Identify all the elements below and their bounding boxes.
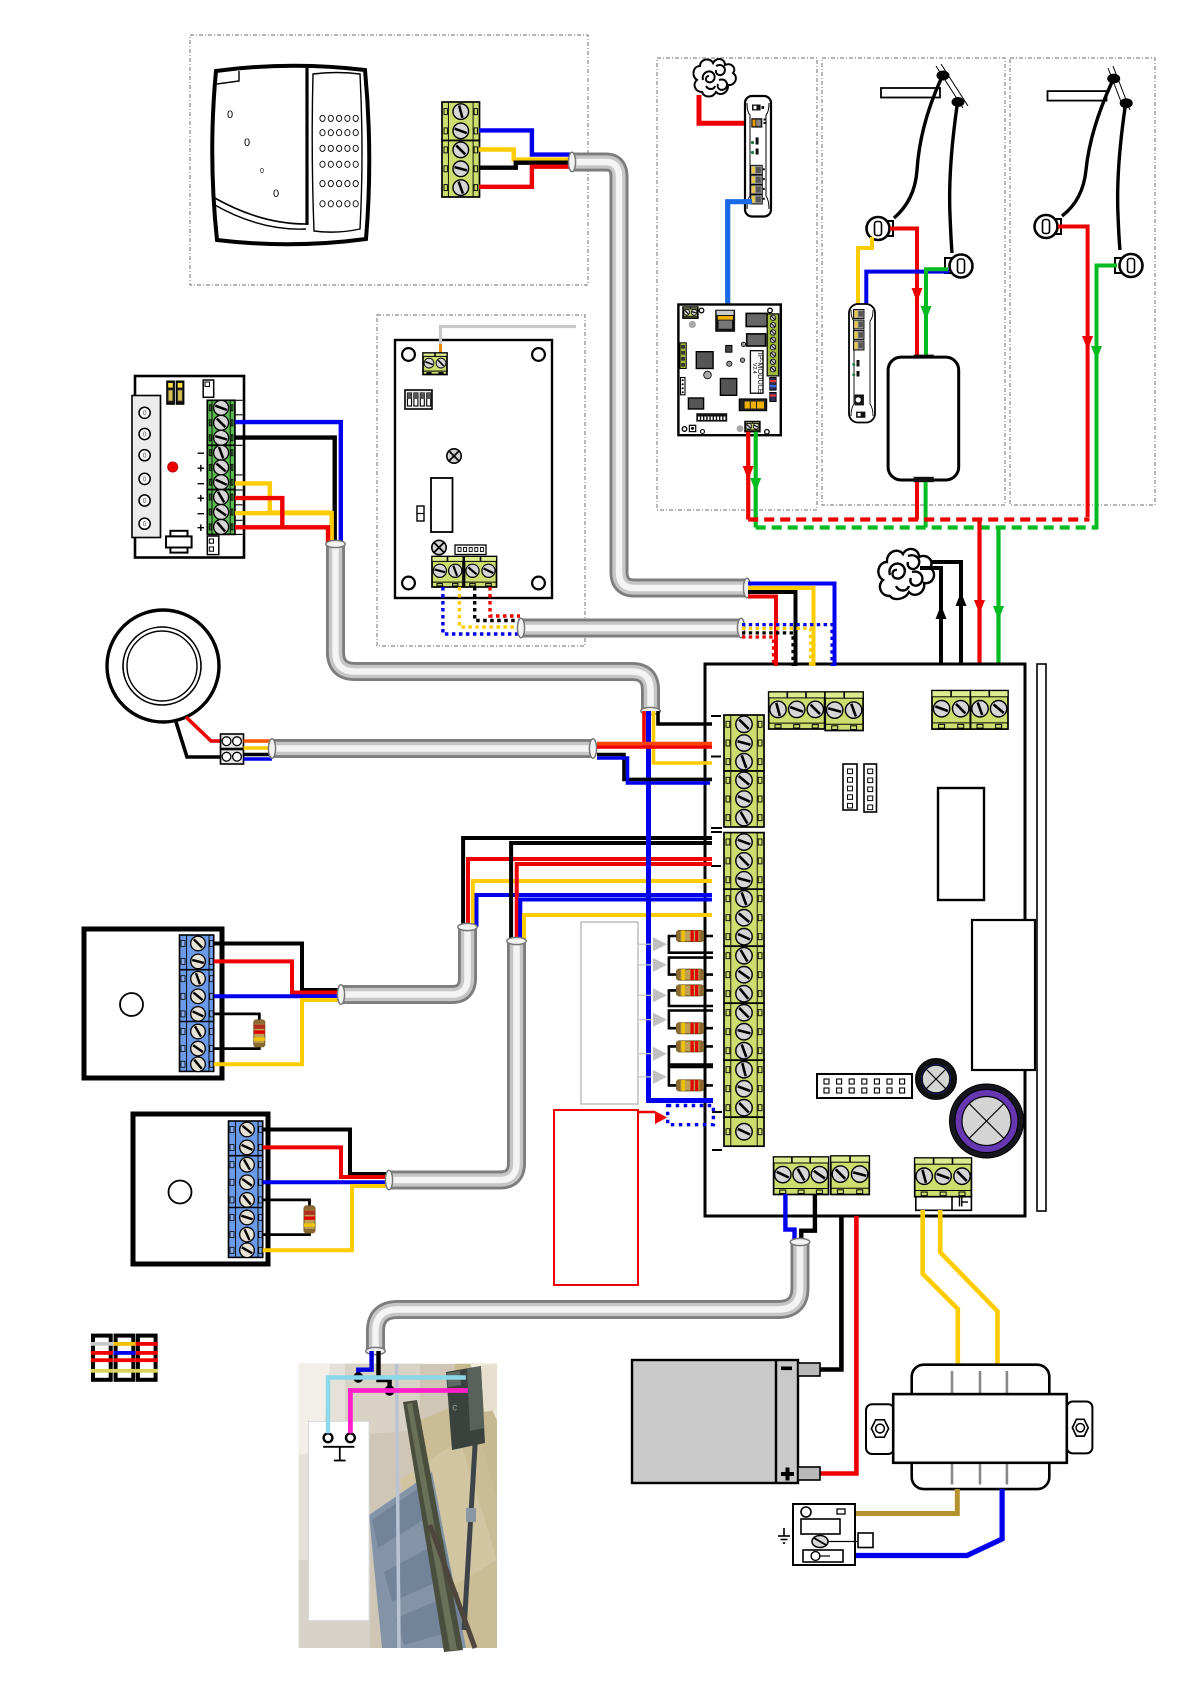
- dotted wire black wiegand-cable to TB1: [742, 633, 793, 666]
- wire tan transformer to relay: [853, 1489, 957, 1514]
- bus dashed green: [756, 525, 1097, 529]
- transformer left hex nut: [871, 1420, 888, 1437]
- wire blue siren to panel: [597, 758, 710, 783]
- door operator 1 cable black 1: [894, 79, 941, 218]
- PSU fuse holder 2: [176, 381, 184, 404]
- wire red operator1: [890, 229, 917, 356]
- zone resistor R1: [677, 931, 704, 942]
- door cable 1 riser wires: [463, 838, 712, 927]
- svg-text:−: −: [197, 476, 205, 491]
- wire red PSU 2: [235, 527, 328, 545]
- enclosure dashed box: IP module zone: [657, 58, 817, 510]
- 5-pin header wiegand: [455, 545, 486, 555]
- remote antenna device operator1: [849, 304, 875, 423]
- cable panel to garage opener (silver): [376, 1242, 801, 1351]
- panel left terminal column B zones: [724, 833, 764, 890]
- DIP switch 4-position: [405, 390, 432, 409]
- card reader terminal block (2+3): [442, 102, 480, 141]
- transformer core: [912, 1365, 1050, 1489]
- door operator 2 knob 1: [1052, 219, 1061, 234]
- door contact 2 terminal strip blue: [229, 1121, 263, 1257]
- zone pointer arrows gray: [638, 943, 652, 945]
- wire red PSU 1: [235, 498, 282, 527]
- panel terminal TB3 outputs: [774, 1157, 829, 1195]
- zone resistor R6: [677, 1080, 704, 1091]
- panel capacitor: [950, 1084, 1024, 1158]
- IP module left connector: [680, 343, 686, 369]
- legend resistor color code 2: [116, 1336, 134, 1380]
- zone resistor R5: [677, 1041, 704, 1052]
- wire green operator2 to bus: [1097, 266, 1118, 530]
- cable wiegand to panel (silver): [521, 619, 741, 638]
- door operator 1 cable black 2: [950, 106, 957, 253]
- wire blue reader: [479, 130, 570, 154]
- wire yellow elbow to panel: [654, 711, 713, 763]
- wire red siren: [186, 717, 226, 741]
- IP module edge connector: [696, 413, 727, 421]
- main control panel board: [705, 664, 1025, 1216]
- zone resistor R2 loop wiring: [690, 973, 713, 976]
- wire red battery: [820, 1216, 856, 1474]
- wire black phone 1: [920, 568, 941, 690]
- wire blue door2 to cable: [263, 1180, 389, 1184]
- zone resistor R4: [677, 1023, 704, 1034]
- PSU screw strip: [132, 396, 161, 538]
- cable door2 to panel (silver): [389, 941, 517, 1180]
- internet cloud doodle: [693, 59, 735, 96]
- router LAN ports: [751, 165, 763, 174]
- card reader / keypad housing: [212, 66, 369, 245]
- antenna stub orange: [439, 344, 442, 356]
- IP module chip 1: [696, 352, 713, 369]
- wire red to panel: [597, 745, 712, 749]
- wire red receiver1 to bus: [915, 482, 919, 520]
- fuse square right of relay box: [858, 1533, 873, 1548]
- door contact 2 indicator circle: [169, 1181, 192, 1204]
- wire green IP module down: [754, 432, 758, 528]
- PSU fuse holder 1: [167, 381, 175, 404]
- panel side plate: [1037, 664, 1046, 1211]
- svg-text:0: 0: [244, 137, 250, 149]
- battery plus label: [781, 1472, 794, 1476]
- enclosure dashed box: wiegand interface zone: [377, 315, 585, 646]
- dotted wire yellow wiegand: [459, 587, 520, 627]
- wire black reader-cable to TB1: [748, 592, 796, 666]
- PSU polarity labels: [197, 446, 205, 535]
- wire blue operator1: [866, 272, 949, 306]
- small component wiegand: [417, 506, 424, 521]
- relay white wiegand: [431, 478, 453, 532]
- door contact 1 indicator circle: [120, 993, 143, 1016]
- wire red IP module down: [746, 432, 750, 520]
- IP module label: [750, 351, 763, 394]
- IP module chip 3: [688, 398, 703, 409]
- EOL resistor door1 wiring: [214, 1014, 260, 1021]
- IP module small chip: [726, 345, 732, 352]
- EOL resistor door1: [254, 1020, 265, 1047]
- junction dot black-magenta: [384, 1385, 394, 1395]
- wire blue PSU: [235, 422, 341, 545]
- red callout arrow: [638, 1111, 655, 1113]
- svg-text:+: +: [197, 491, 205, 506]
- zone resistor R6 loop wiring: [690, 1084, 713, 1087]
- panel terminal TB2 bus inputs: [932, 691, 970, 730]
- IP module vias: [741, 342, 745, 346]
- bus green drop to panel: [996, 528, 1000, 691]
- wire black phone 2: [932, 562, 961, 690]
- wire red cloud to router: [699, 95, 752, 123]
- IP module pad: [689, 321, 696, 328]
- wiegand interface PCB: [395, 340, 552, 598]
- router / modem: [745, 96, 771, 217]
- panel terminal TB1 reader inputs: [769, 692, 825, 729]
- dotted wire yellow wiegand-cable to TB1: [742, 628, 811, 666]
- transformer right ear: [1067, 1402, 1093, 1454]
- wire red door1 to cable: [214, 961, 341, 992]
- wire black siren to panel: [597, 755, 712, 780]
- panel header J2: [864, 764, 877, 812]
- wiegand bottom terminal blocks: [432, 557, 463, 588]
- wire blue main vertical: [646, 711, 651, 1101]
- wire blue reader-cable to TB1: [748, 584, 835, 667]
- svg-text:+: +: [197, 520, 205, 535]
- IP module output terminal strip: [767, 314, 779, 376]
- IP module chip 2: [720, 379, 736, 396]
- antenna wire gray: [441, 327, 577, 346]
- garage photo: [299, 1364, 497, 1652]
- wire black siren: [176, 722, 226, 757]
- wire black door1 to cable: [214, 944, 341, 991]
- router WAN port: [752, 105, 761, 111]
- svg-text:0: 0: [260, 168, 264, 175]
- wire cyan garage: [328, 1378, 466, 1434]
- IP module relay 1: [746, 313, 767, 326]
- zone resistor R5 loop wiring: [690, 1045, 713, 1048]
- panel header J1: [843, 764, 857, 810]
- panel buzzer: [916, 1059, 957, 1100]
- wire blue router to IP module: [728, 202, 752, 310]
- wire yellow door2 to cable: [263, 1186, 389, 1250]
- backup battery: [632, 1360, 798, 1483]
- receiver box operator1: [914, 355, 934, 361]
- PSU aux connector: [203, 380, 214, 397]
- phone line cloud doodle: [878, 549, 934, 599]
- IP module left header: [681, 378, 686, 395]
- router status leds: [756, 137, 759, 144]
- screw head 2 wiegand: [432, 540, 446, 554]
- dotted wire red wiegand-cable to TB1: [742, 637, 774, 666]
- AC relay box: [793, 1504, 855, 1565]
- zone resistor R3 loop wiring: [690, 989, 713, 992]
- router uplink port: [751, 118, 762, 127]
- door contact 1 terminal strip blue: [180, 935, 214, 1071]
- svg-text:−: −: [197, 446, 205, 461]
- cable door1 to panel (silver): [341, 927, 468, 995]
- wiegand top terminal block: [423, 353, 447, 375]
- wire yellow transformer 2: [940, 1210, 997, 1365]
- svg-text:0: 0: [227, 109, 233, 121]
- red callout rectangle: [554, 1110, 638, 1285]
- cable siren to panel (silver): [272, 739, 593, 758]
- wire yellow reader: [479, 150, 570, 160]
- transformer right hex nut: [1072, 1419, 1088, 1436]
- elbow stub wire red: [642, 711, 646, 748]
- wire yellow transformer 1: [923, 1210, 958, 1365]
- EOL resistor door2 wiring: [263, 1200, 310, 1207]
- panel pin header 2x7: [817, 1074, 912, 1098]
- wire blue transformer to relay: [851, 1489, 1002, 1556]
- wire blue panel to garage cable: [785, 1194, 794, 1241]
- wire yellow operator1: [858, 237, 872, 306]
- reader face marks: [227, 109, 279, 200]
- legend resistor color code 1: [93, 1336, 111, 1380]
- wire black panel to garage cable: [801, 1194, 815, 1243]
- enclosure dashed box: door operator 2 zone: [1010, 58, 1155, 505]
- IP module relay 2: [747, 334, 766, 346]
- svg-text:0: 0: [273, 188, 279, 200]
- door operator 1 knob 2: [945, 258, 954, 273]
- zone wiring legend rect: [581, 922, 638, 1104]
- screw head wiegand: [447, 449, 461, 463]
- panel tick marks left edge: [711, 716, 722, 1150]
- IP module PCB: [678, 305, 780, 436]
- door operator 2 cable black 2: [1118, 108, 1125, 250]
- keypad button grid: [320, 115, 358, 207]
- siren speaker: [107, 610, 219, 722]
- svg-text:+: +: [197, 460, 205, 475]
- wire yellow reader-cable to TB1: [748, 588, 814, 666]
- REX dotted blue box: [668, 1106, 714, 1125]
- ground symbol: [778, 1528, 790, 1543]
- cable PSU to panel (silver): [336, 544, 651, 711]
- wire yellow PSU 1: [235, 483, 270, 512]
- junction dot blue-cyan: [353, 1372, 363, 1382]
- wire green receiver1 to bus: [924, 482, 928, 528]
- wire red reader-cable to TB1: [748, 597, 776, 667]
- wire black reader: [479, 163, 570, 168]
- panel terminal TB4 AC input: [915, 1158, 972, 1197]
- IP module RJ45 jack: [715, 310, 735, 332]
- door operator 2 mounting arm: [1048, 91, 1107, 101]
- zone resistor R3: [677, 985, 704, 996]
- wire black door2 to cable: [263, 1130, 389, 1175]
- wire yellow PSU 2: [235, 513, 332, 545]
- IP module jumper block: [770, 378, 776, 391]
- door operator 2 cable black 1: [1062, 82, 1112, 216]
- wall button white plate: [309, 1421, 370, 1620]
- PSU terminal block 9-screw: [207, 400, 235, 445]
- IP module power terminal: [683, 307, 698, 318]
- transformer winding band: [893, 1394, 1067, 1463]
- panel left terminal column A: [724, 715, 764, 771]
- IP module relay yellow: [739, 399, 766, 411]
- bus dashed red: [748, 517, 1089, 521]
- mounting holes wiegand PCB: [402, 348, 415, 361]
- svg-text:V2.4: V2.4: [751, 363, 757, 374]
- wire blue garage: [358, 1351, 371, 1378]
- panel relay: [938, 788, 984, 900]
- enclosure dashed box: card reader zone: [190, 35, 588, 285]
- cable from reader to panel (silver): [572, 162, 747, 588]
- panel module bay: [972, 920, 1035, 1070]
- PSU bottom fuse: [166, 531, 192, 553]
- IP module output terminal 2: [745, 422, 760, 432]
- wall button terminals and switch symbol: [324, 1433, 333, 1442]
- wire red reader: [479, 167, 570, 187]
- battery minus label: [781, 1367, 792, 1371]
- wire red door2 to cable: [263, 1147, 389, 1177]
- IP module mounting holes: [699, 308, 704, 313]
- wire black PSU: [235, 438, 335, 545]
- door contact box 2: [133, 1114, 268, 1264]
- wire black battery: [820, 1216, 841, 1370]
- PSU tick marks: [235, 400, 243, 534]
- transformer laminate slots: [951, 1371, 954, 1394]
- dotted wire black wiegand: [475, 587, 520, 621]
- EOL resistor door2: [304, 1206, 315, 1233]
- door contact box 1: [84, 929, 222, 1078]
- wire yellow door1 to cable: [214, 1000, 341, 1064]
- wire black elbow to panel: [658, 711, 712, 724]
- dotted wire red wiegand: [490, 587, 520, 616]
- wire blue door1 to cable: [214, 994, 341, 998]
- zone resistor R2: [677, 969, 704, 980]
- zone resistor R4 loop wiring: [690, 1027, 713, 1030]
- PSU bottom connector: [207, 536, 219, 555]
- legend resistor color code 3: [138, 1336, 156, 1380]
- IP module corner socket: [689, 425, 695, 431]
- enclosure dashed box: door operator 1 zone: [822, 58, 1005, 505]
- dotted wire blue wiegand: [443, 587, 520, 634]
- dotted wire blue wiegand-cable to TB1: [742, 625, 832, 666]
- door operator 1 mounting arm: [881, 88, 940, 98]
- wire red operator2 to bus: [1058, 227, 1088, 518]
- zone resistor R1 loop wiring: [690, 935, 713, 938]
- PSU LED red: [168, 462, 178, 472]
- AC bracket with fuse symbol: [916, 1197, 972, 1211]
- bus red drop to panel: [977, 520, 981, 691]
- wire stubs connector to cable: [244, 739, 273, 742]
- siren wire connector: [221, 734, 244, 749]
- wire green operator1: [926, 269, 948, 355]
- transformer left ear: [866, 1404, 894, 1454]
- door operator 2 knob 2: [1115, 258, 1124, 273]
- wire magenta garage: [350, 1391, 468, 1434]
- power supply board: [135, 376, 244, 558]
- door operator 1 knob 1: [884, 221, 893, 236]
- wire orange-red to panel: [597, 742, 712, 746]
- door cable 2 riser wires: [511, 843, 712, 941]
- wire black garage: [379, 1351, 390, 1391]
